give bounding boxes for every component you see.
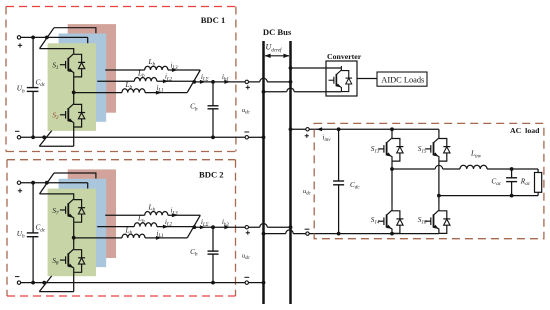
current arrow iL2 bbox=[163, 79, 169, 83]
wire: phase 1 output bbox=[74, 92, 122, 94]
node: AC entry on left bus bbox=[262, 232, 266, 236]
wire: left leg mid link bbox=[391, 161, 393, 206]
inductor Lb (phase 1) bbox=[122, 89, 145, 93]
resistor Rac bbox=[537, 169, 539, 173]
wire: inverter return rail bbox=[439, 195, 538, 197]
node: negative rail on left DC bus bbox=[262, 135, 266, 139]
BDC 2 dashed enclosure box bbox=[7, 160, 236, 296]
AC load dashed enclosure box bbox=[314, 123, 544, 238]
wire: middle-layer feed stub bbox=[87, 183, 89, 189]
BDC2 phase layer 3 (back, salmon) bbox=[68, 169, 116, 258]
AC load negative port bbox=[306, 232, 309, 235]
wire: converter negative feed bbox=[264, 91, 287, 93]
wire: front-layer feed bbox=[40, 194, 74, 195]
wire hop over left DC bus bbox=[260, 223, 267, 227]
node: right leg midpoint bbox=[437, 194, 441, 198]
node: output to right DC bus bbox=[289, 80, 293, 84]
wire: BDC2 top input rail bbox=[21, 182, 88, 184]
BDC1 phase layer 2 (middle, blue) bbox=[59, 34, 107, 122]
node: BDC2 front leg midpoint bbox=[72, 236, 76, 240]
svg-text:AC load: AC load bbox=[510, 126, 540, 135]
node: merge output junction bbox=[192, 80, 196, 84]
transistor S13 bbox=[378, 134, 403, 162]
transistor S16 bbox=[425, 206, 450, 234]
wire hop over right leg bbox=[435, 165, 442, 169]
wire: negative rail to left bus bbox=[249, 136, 264, 138]
wire: right DC bus line bbox=[289, 41, 292, 304]
inductor Lb (phase 3) bbox=[145, 66, 168, 70]
wire: phase 2 output bbox=[97, 80, 134, 82]
wire: phase 2 output bbox=[97, 226, 134, 228]
BDC2 positive input terminal bbox=[17, 181, 20, 184]
current arrow iL1 bbox=[156, 91, 162, 95]
wire: front-layer return bbox=[39, 145, 73, 147]
wire: right leg mid link bbox=[438, 161, 440, 206]
current arrow iL2 bbox=[163, 225, 169, 229]
node: Cdc bottom junction bbox=[31, 135, 35, 139]
BDC1 phase layer 1 (front, green) bbox=[48, 43, 96, 131]
transistor S14 bbox=[378, 206, 403, 234]
BDC2 phase layer 2 (middle, blue) bbox=[59, 179, 107, 267]
current arrow ib2 bbox=[224, 225, 230, 229]
wire: phase 3 output bbox=[105, 214, 145, 216]
wire: BDC1 positive output rail bbox=[194, 81, 260, 83]
wire: S2 emitter down lead bbox=[73, 127, 75, 146]
capacitor Cdc of BDC2 bbox=[32, 183, 34, 233]
wire: right inverter leg upper bbox=[438, 129, 440, 133]
capacitor Cb of BDC2 bbox=[212, 227, 214, 251]
wire: return merge diagonal bbox=[39, 131, 51, 147]
wire: BDC1 bottom rail bbox=[21, 136, 245, 138]
BDC2 negative output port bbox=[245, 281, 248, 284]
transistor (converter IGBT) bbox=[329, 66, 352, 92]
node: converter feed on left bus bbox=[262, 90, 266, 94]
capacitor Cb of BDC1 bbox=[212, 82, 214, 106]
current arrow iL1 bbox=[156, 236, 162, 240]
wire: converter output bbox=[357, 78, 377, 80]
node: merge output junction bbox=[192, 225, 196, 229]
svg-text:BDC 1: BDC 1 bbox=[201, 15, 226, 25]
transistor S8 (lower IGBT with antiparallel diode) bbox=[60, 245, 85, 272]
wire: negative rail to left bus bbox=[249, 282, 264, 284]
node: Cb bottom junction bbox=[211, 281, 215, 285]
wire: phase split diagonal bbox=[40, 28, 55, 49]
node: AC entry on right bus bbox=[289, 127, 293, 131]
wire hop over left DC bus bbox=[260, 78, 267, 82]
inductor Lb (phase 2) bbox=[134, 78, 157, 82]
inductor L_inv bbox=[460, 165, 487, 169]
node: BDC1 Cdc top junction bbox=[31, 36, 35, 40]
node: left leg top bbox=[390, 127, 394, 131]
capacitor Cdc (inverter DC link) bbox=[338, 129, 340, 181]
node: left leg midpoint bbox=[390, 167, 394, 171]
AIDC Loads box bbox=[377, 72, 427, 86]
wire: AC load positive entry bbox=[291, 128, 439, 130]
wire: leg midpoint link bbox=[73, 77, 75, 100]
wire: front-layer feed bbox=[40, 49, 74, 50]
transistor S2 (lower IGBT with antiparallel diode) bbox=[60, 100, 85, 128]
current arrow iL-sum bbox=[200, 225, 206, 229]
wire: S8 emitter down lead bbox=[73, 272, 75, 291]
node: Cdc bottom junction bbox=[31, 281, 35, 285]
node: negative rail on left DC bus bbox=[262, 281, 266, 285]
converter box bbox=[326, 61, 357, 96]
wire: front-layer return bbox=[39, 291, 73, 293]
node: BDC1 phase split junction bbox=[45, 36, 49, 40]
node: return diagonal junction bbox=[42, 281, 46, 285]
node: return diagonal junction bbox=[42, 135, 46, 139]
svg-text:BDC 2: BDC 2 bbox=[199, 170, 224, 180]
dimension arrow Udcref between bus lines bbox=[265, 55, 289, 57]
AC load positive port bbox=[306, 128, 309, 131]
node: BDC2 Cdc top junction bbox=[31, 181, 35, 185]
inductor Lb (phase 2) bbox=[134, 223, 157, 227]
current arrow iL3 bbox=[172, 213, 178, 217]
node: Cdc top bbox=[337, 127, 341, 131]
node: Cb top junction bbox=[211, 80, 215, 84]
wire: back-layer feed bbox=[54, 28, 96, 34]
wire: back-layer feed bbox=[54, 173, 96, 179]
current arrow i_inv (pointing left) bbox=[317, 127, 323, 131]
capacitor Cac bbox=[511, 169, 513, 178]
wire: output merge diagonal bbox=[187, 215, 200, 238]
BDC1 positive output port bbox=[245, 80, 248, 83]
wire: phase 3 output bbox=[105, 69, 145, 71]
node: Cdc bottom bbox=[337, 232, 341, 236]
node: Cb bottom junction bbox=[211, 135, 215, 139]
svg-text:AIDC Loads: AIDC Loads bbox=[381, 75, 424, 84]
svg-text:DC Bus: DC Bus bbox=[263, 27, 292, 37]
node: BDC1 front leg midpoint bbox=[72, 91, 76, 95]
wire: phase split diagonal bbox=[40, 173, 55, 194]
wire: phase 1 output bbox=[74, 237, 122, 239]
BDC2 phase layer 1 (front, green) bbox=[48, 189, 96, 277]
transistor S15 bbox=[425, 134, 450, 162]
wire: converter positive feed bbox=[291, 67, 342, 69]
wire: left inverter leg upper bbox=[391, 129, 393, 133]
transistor S1 (upper IGBT with antiparallel diode) bbox=[60, 49, 85, 77]
BDC1 phase layer 3 (back, salmon) bbox=[68, 24, 116, 113]
wire hop over right bus bbox=[287, 88, 294, 92]
node: Cac bottom junction bbox=[510, 194, 514, 198]
node: Cb top junction bbox=[211, 225, 215, 229]
wire hop over right bus (negative entry) bbox=[286, 230, 293, 234]
current arrow iL-sum bbox=[200, 80, 206, 84]
wire: output merge diagonal bbox=[187, 70, 200, 93]
wire: inverter phase output bbox=[392, 168, 435, 170]
current arrow ib1 bbox=[224, 80, 230, 84]
wire: BDC2 positive output rail bbox=[194, 226, 260, 228]
node: BDC2 phase split junction bbox=[45, 181, 49, 185]
inductor Lb (phase 3) bbox=[145, 211, 168, 215]
inductor Lb (phase 1) bbox=[122, 234, 145, 238]
wire: return merge diagonal bbox=[39, 276, 51, 292]
wire: middle-layer feed stub bbox=[87, 37, 89, 43]
current arrow iL3 bbox=[172, 68, 178, 72]
wire: BDC1 top input rail bbox=[21, 36, 88, 38]
wire: AC load negative entry bbox=[264, 233, 286, 235]
BDC1 negative input terminal bbox=[17, 136, 20, 139]
BDC2 negative input terminal bbox=[17, 281, 20, 284]
wire: BDC2 bottom rail bbox=[21, 282, 245, 284]
BDC 1 dashed enclosure box bbox=[6, 7, 236, 152]
svg-text:Converter: Converter bbox=[327, 52, 362, 61]
capacitor Cdc of BDC1 bbox=[32, 37, 34, 87]
wire: left DC bus line bbox=[262, 41, 265, 304]
node: output to right DC bus bbox=[289, 225, 293, 229]
BDC2 positive output port bbox=[245, 226, 248, 229]
wire: leg midpoint link bbox=[73, 222, 75, 245]
node: converter feed on right bus bbox=[289, 66, 293, 70]
BDC1 positive input terminal bbox=[17, 36, 20, 39]
BDC1 negative output port bbox=[245, 136, 248, 139]
node: Cac top junction bbox=[510, 167, 514, 171]
transistor S7 (upper IGBT with antiparallel diode) bbox=[60, 195, 85, 223]
node: S14 emitter on bottom rail bbox=[390, 232, 394, 236]
